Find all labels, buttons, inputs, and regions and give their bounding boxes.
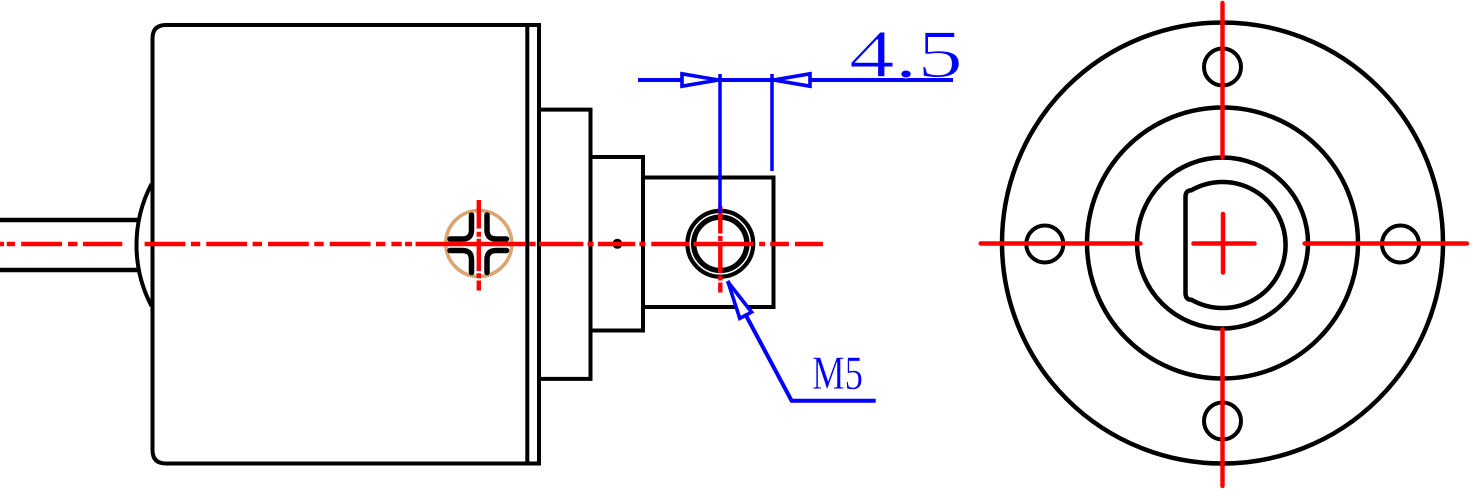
svg-text:4.5: 4.5 bbox=[849, 16, 963, 92]
svg-text:M5: M5 bbox=[812, 348, 863, 400]
